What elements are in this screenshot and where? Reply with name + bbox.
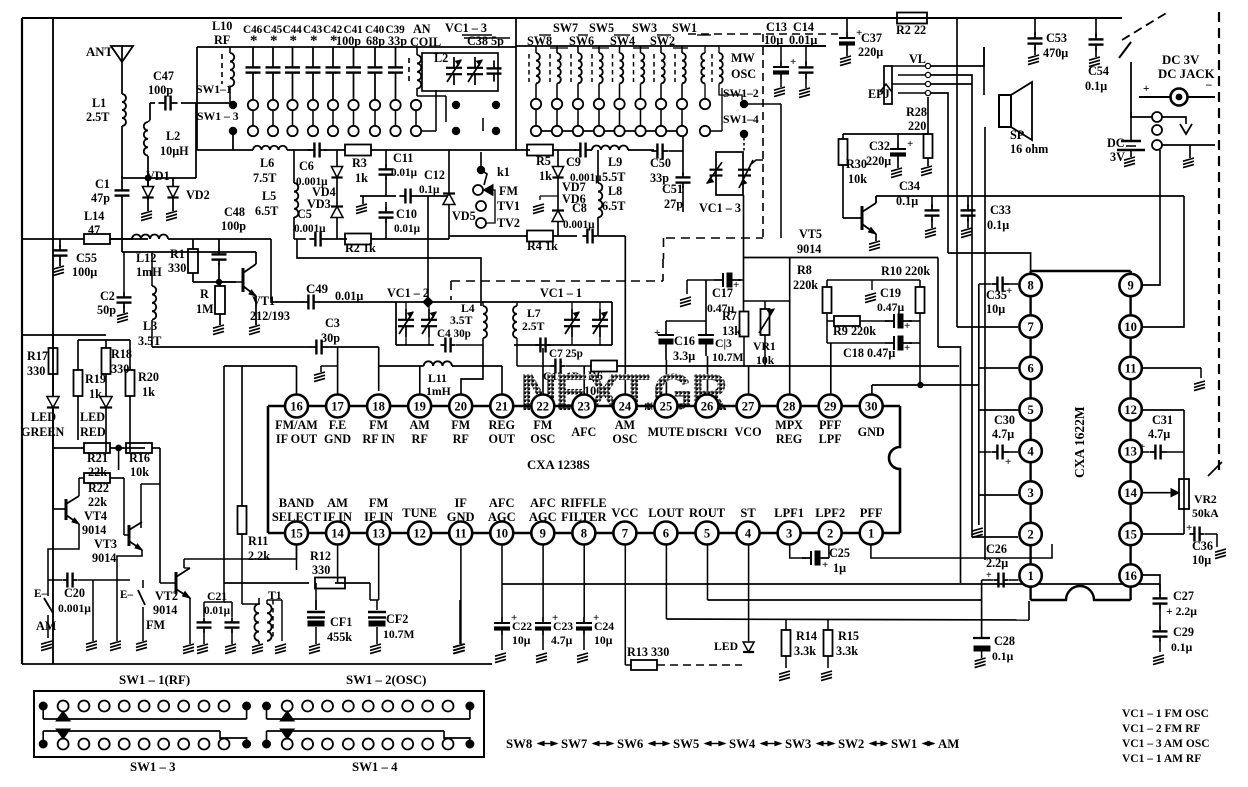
svg-text:VC1 – 2 FM RF: VC1 – 2 FM RF [1122,723,1201,735]
svg-text:DC 3V: DC 3V [1162,53,1200,67]
bus wire y150 segments [197,149,253,151]
capacitor C38 [493,60,495,68]
svg-text:C12: C12 [424,168,445,182]
svg-text:RF IN: RF IN [362,432,395,446]
svg-text:IF OUT: IF OUT [276,432,317,446]
svg-text:C48: C48 [224,205,245,219]
svg-text:10μ: 10μ [512,634,531,647]
svg-text:SW4: SW4 [729,737,756,751]
svg-text:C11: C11 [393,151,413,165]
tuning coil SW1 [674,54,676,82]
svg-text:FM: FM [451,418,470,432]
svg-text:1mH: 1mH [426,385,451,398]
wire pin30 up [871,385,873,394]
switch circles row2 OSC connected [536,130,683,132]
svg-text:CF1: CF1 [330,615,352,629]
trimmer VC1-3 left [710,169,723,171]
junction diamond VC1-2 [423,297,433,307]
svg-text:R8: R8 [797,263,812,277]
dashed vertical separator [762,34,764,237]
switch bank row contacts [39,702,48,711]
svg-text:C2: C2 [100,289,115,303]
pin 4 left U2 [1019,440,1041,462]
svg-text:2: 2 [827,527,833,541]
pin6 wire down [665,544,667,619]
svg-text:4.7μ: 4.7μ [1148,427,1170,441]
pin 11 right U2 [1119,357,1141,379]
svg-text:SW1 – 4: SW1 – 4 [352,760,398,774]
resistor R2 22 [897,13,927,24]
svg-text:12: 12 [413,527,426,541]
pin4 wire down [748,544,750,642]
bank top line right [826,45,920,47]
svg-text:R19: R19 [85,372,106,386]
svg-text:C26: C26 [986,542,1007,556]
svg-text:21: 21 [495,400,508,414]
pin 13 label [367,522,390,545]
tuning coil SW6 [570,54,572,82]
svg-text:330: 330 [111,362,129,376]
svg-text:FM: FM [533,418,552,432]
svg-text:L11: L11 [428,372,447,385]
pin10 wire down [501,544,503,617]
T1 right winding [266,600,268,604]
svg-text:4.7μ: 4.7μ [551,634,573,647]
trimmer VC1-1b [599,309,601,320]
dashed wire top [688,33,838,35]
svg-text:VD2: VD2 [186,188,210,202]
svg-text:C36: C36 [1192,539,1213,553]
wire pin15 to C36 [1142,533,1184,535]
wire k1 up [480,131,482,152]
svg-text:220: 220 [908,119,926,133]
svg-text:AM: AM [327,496,348,510]
svg-text:C20: C20 [64,586,85,600]
svg-text:L2: L2 [166,129,180,143]
svg-text:0.1μ: 0.1μ [1085,79,1107,93]
svg-text:R21: R21 [87,451,108,465]
svg-text:7: 7 [1027,320,1033,334]
wire VC1-3 down to R8 row [744,257,938,259]
svg-text:16: 16 [290,400,303,414]
IC U2 CXA1622M body [1029,271,1031,600]
svg-text:*: * [250,33,258,49]
svg-text:VT5: VT5 [799,227,822,241]
pin 17 label [326,395,349,418]
svg-text:C47: C47 [153,69,174,83]
svg-text:2.2k: 2.2k [248,549,270,563]
svg-text:23: 23 [578,400,591,414]
svg-text:R2 22: R2 22 [896,23,926,37]
pin 16 label [285,395,308,418]
svg-text:17: 17 [331,400,344,414]
svg-text:AFC: AFC [489,496,515,510]
capacitor C7 25p [535,344,540,346]
svg-text:C17: C17 [712,286,733,300]
capacitor C14 [805,61,807,67]
svg-text:22: 22 [537,400,550,414]
L4 bottom to pin20 [461,345,483,394]
svg-text:R13 330: R13 330 [627,645,669,659]
VT2 emitter ground [189,598,191,644]
svg-text:COIL: COIL [410,35,441,49]
pin7 wire down [624,544,626,665]
svg-text:11: 11 [455,527,467,541]
svg-text:OUT: OUT [489,432,515,446]
svg-text:L3: L3 [143,319,157,333]
svg-text:VL: VL [909,52,926,66]
ground left small [92,580,94,641]
switch bank row contacts [262,702,271,711]
svg-text:2.5T: 2.5T [86,110,109,124]
svg-text:8: 8 [1027,279,1033,293]
svg-text:1mH: 1mH [136,265,162,279]
svg-text:C25: C25 [829,546,850,560]
svg-text:FILTER: FILTER [561,510,607,524]
svg-text:k1: k1 [497,165,510,179]
wire pin16 up [296,366,298,394]
svg-text:2.5T: 2.5T [522,320,545,333]
svg-text:3.5T: 3.5T [138,334,161,348]
R16 right wire down [152,447,160,449]
svg-text:22k: 22k [88,465,107,479]
svg-text:TUNE: TUNE [402,506,437,520]
svg-text:ANT: ANT [86,45,113,59]
svg-text:LOUT: LOUT [648,506,684,520]
IC bottom edge [308,532,326,535]
wire SW1-3 down [232,135,234,150]
svg-text:SW7: SW7 [561,737,588,751]
box AN coil [422,53,498,91]
svg-text:SW1–2: SW1–2 [723,87,759,100]
wire C2 L3 VT1 row [122,251,256,253]
svg-text:LPF: LPF [819,432,842,446]
svg-text:SW6: SW6 [617,737,644,751]
ground VD7 [540,195,558,197]
VT2 collector wire to pin15 [183,559,185,568]
svg-text:R7: R7 [722,309,737,323]
svg-text:R17: R17 [27,349,48,363]
svg-text:R11: R11 [248,534,268,548]
svg-text:29: 29 [824,400,837,414]
svg-text:OSC: OSC [530,432,555,446]
svg-text:30p: 30p [321,331,340,345]
trimmer cap VC1-3a [453,57,455,68]
svg-text:0.001μ: 0.001μ [563,219,595,231]
svg-text:10μ: 10μ [594,634,613,647]
wire C16 top [666,320,706,322]
svg-text:AFC: AFC [530,496,556,510]
svg-text:GND: GND [447,510,475,524]
wire pin25 up [665,360,667,394]
EPJ wire 2 [931,84,972,99]
wire pin29 up [830,343,832,394]
tuning coil SW3 [633,54,635,82]
svg-text:C5: C5 [297,207,312,221]
bus y600 pin5 [708,599,982,601]
wire C12 down to VC1-2 [427,196,429,302]
svg-text:10μ: 10μ [986,302,1005,316]
svg-text:16 ohm: 16 ohm [1010,142,1048,156]
svg-text:SW1: SW1 [672,21,697,35]
SW1-4 dotted stub [743,138,745,152]
tuning coil SW4 [612,54,614,82]
svg-text:L9: L9 [608,155,622,169]
svg-text:10.7M: 10.7M [712,351,743,364]
switch circles row1 OSC [531,99,541,109]
svg-text:C23: C23 [553,620,573,633]
svg-text:FM: FM [369,418,388,432]
svg-text:VCC: VCC [611,506,638,520]
svg-text:8: 8 [581,527,587,541]
svg-text:C28: C28 [994,634,1015,648]
wires EPJ to SP [931,47,984,66]
pin 24 label [613,395,636,418]
svg-text:0.1μ: 0.1μ [987,218,1009,232]
svg-text:CXA 1622M: CXA 1622M [1072,406,1087,478]
svg-text:R9 220k: R9 220k [833,324,876,338]
svg-text:SW5: SW5 [589,21,614,35]
svg-text:R12: R12 [310,549,331,563]
svg-text:10μ: 10μ [764,33,783,47]
svg-text:F.E: F.E [329,418,347,432]
capacitor C37 220u [846,32,848,38]
switch circles row2 RF [248,126,258,136]
wire pin16 to C27 [1142,575,1160,592]
svg-text:+: + [1186,522,1192,534]
svg-text:100p: 100p [148,83,173,97]
trimmer VC1-2a [405,309,407,320]
tuning coil SW2 [653,54,655,82]
svg-text:10.7M: 10.7M [383,628,414,641]
switch bank rails [42,706,44,719]
svg-text:R28: R28 [906,105,927,119]
svg-text:+: + [907,138,913,150]
svg-text:5: 5 [1027,403,1033,417]
svg-text:330: 330 [312,563,330,577]
svg-text:C8: C8 [572,201,587,215]
switch bank box [34,691,484,757]
pin3 wire down [790,544,806,558]
speaker SP 16 ohm [999,95,1011,127]
svg-text:AGC: AGC [529,510,557,524]
svg-text:*: * [270,33,278,49]
svg-text:C19: C19 [880,286,901,300]
pin 8 label [572,522,595,545]
speaker terminal wires [983,47,985,95]
svg-text:1k: 1k [142,385,155,399]
LED red diode [100,397,112,408]
svg-text:11: 11 [1125,362,1137,376]
pin 25 label [654,395,677,418]
svg-text:SW1: SW1 [891,737,917,751]
svg-text:50kA: 50kA [1192,507,1219,520]
svg-text:VD5: VD5 [452,209,476,223]
svg-text:IF IN: IF IN [323,510,352,524]
svg-text:16: 16 [1124,569,1137,583]
svg-text:VC1 – 2: VC1 – 2 [387,286,429,300]
svg-text:C3: C3 [325,316,340,330]
pin 7 label [613,522,636,545]
svg-text:0.47μ: 0.47μ [877,301,904,314]
svg-text:DISCRI: DISCRI [686,425,728,439]
svg-text:E–: E– [120,589,133,601]
svg-text:AM: AM [36,619,57,633]
VCC rail to pin7 [956,18,958,327]
pin 10 right U2 [1119,315,1141,337]
svg-text:3.3k: 3.3k [836,644,858,658]
svg-text:220k: 220k [793,278,818,292]
svg-text:9014: 9014 [92,551,116,565]
svg-text:FM: FM [369,496,389,510]
svg-text:14: 14 [1124,486,1137,500]
pin 18 label [367,395,390,418]
volume line y196 [876,195,1184,197]
svg-text:C37: C37 [861,31,882,45]
svg-text:30: 30 [865,400,878,414]
svg-text:C32: C32 [869,139,890,153]
dashed boundary tuning [451,280,663,282]
svg-text:C22: C22 [512,620,532,633]
svg-text:C38 5p: C38 5p [467,34,504,48]
svg-text:C18 0.47μ: C18 0.47μ [843,346,895,360]
capacitor C4 30p [440,344,445,346]
svg-text:R14: R14 [796,629,817,643]
ground far right bottom left area [459,600,461,644]
pin 6 label [654,522,677,545]
svg-text:1μ: 1μ [833,561,846,575]
svg-text:VT4: VT4 [84,509,107,523]
svg-text:1: 1 [868,527,874,541]
svg-text:19: 19 [413,400,426,414]
wire pin5 [979,409,1018,411]
svg-text:C16: C16 [674,334,695,348]
bus y584 to C27 junction [1159,584,1161,596]
dashed right border [1122,12,1168,40]
capacitor C13 electrolytic [780,61,782,67]
switch circles row1 RF [248,100,258,110]
capacitor C23 4.7u [542,617,544,623]
svg-text:VCO: VCO [735,425,762,439]
svg-text:SW3: SW3 [785,737,811,751]
tuning coil SW7 [549,54,551,82]
pin11 wire down [460,544,462,644]
pin 9 label [531,522,554,545]
wire pin9 up to DC switch [1142,150,1160,285]
pin 15 right U2 [1119,523,1141,545]
svg-text:+: + [904,320,910,332]
svg-text:0.001μ: 0.001μ [58,602,91,615]
svg-text:1k: 1k [355,171,368,185]
ground C19 [871,280,873,290]
svg-text:SW1 – 3: SW1 – 3 [130,760,176,774]
svg-text:GND: GND [858,425,885,439]
pin 10 label [490,522,513,545]
svg-text:OSC: OSC [731,67,756,81]
svg-text:MPX: MPX [775,418,803,432]
pin5 wire down [707,544,709,600]
pin 15 label [285,522,308,545]
speaker wires down [947,180,949,253]
svg-text:ST: ST [740,506,756,520]
svg-text:L10: L10 [212,19,232,33]
pin15 wire down [296,544,298,570]
svg-text:AGC: AGC [488,510,516,524]
svg-text:6: 6 [1027,362,1033,376]
svg-text:AM: AM [938,737,959,751]
svg-text:4.7μ: 4.7μ [992,427,1014,441]
svg-text:SW7: SW7 [553,21,578,35]
svg-text:C31: C31 [1152,413,1173,427]
pin9 wire down [542,544,544,617]
svg-text:1k: 1k [539,169,552,183]
svg-text:L14: L14 [84,209,104,223]
wire y258 link [297,239,481,306]
svg-text:220μ: 220μ [858,45,883,59]
svg-text:FM: FM [146,618,165,632]
pin 16 right U2 [1119,564,1141,586]
svg-text:C7 25p: C7 25p [549,348,583,360]
svg-text:100p: 100p [221,219,246,233]
C19 ecap [885,320,894,322]
svg-text:SELECT: SELECT [272,510,322,524]
svg-text:C53: C53 [1046,31,1067,45]
svg-text:18: 18 [372,400,385,414]
IC top edge [308,405,326,408]
pin 23 label [572,395,595,418]
svg-text:R20: R20 [138,370,159,384]
C18 ecap [885,342,894,344]
svg-text:VC1 – 1 FM OSC: VC1 – 1 FM OSC [1122,708,1209,720]
svg-text:C34: C34 [899,179,920,193]
svg-text:0.1μ: 0.1μ [419,184,440,196]
VT3 collector arm join [141,522,142,528]
pin14 wire down [337,544,339,583]
R9 220k [834,316,860,326]
SW1-2 wire down [780,104,782,238]
svg-text:VC1 – 1 AM RF: VC1 – 1 AM RF [1122,753,1201,765]
svg-text:9: 9 [540,527,546,541]
svg-text:R15: R15 [838,629,859,643]
pin 3 left U2 [1019,481,1041,503]
svg-text:C29: C29 [1173,625,1194,639]
selector k1 FM TV1 TV2 [477,166,485,174]
svg-text:OSC: OSC [612,432,637,446]
svg-text:10μH: 10μH [160,144,189,158]
pin 4 label [737,522,760,545]
svg-text:1k: 1k [89,387,102,401]
svg-text:IF IN: IF IN [364,510,393,524]
svg-text:2: 2 [1027,528,1033,542]
svg-text:0.01μ: 0.01μ [204,605,231,617]
svg-text:RIFFLE: RIFFLE [561,496,607,510]
svg-text:C55: C55 [76,251,97,265]
svg-text:10: 10 [1124,320,1137,334]
svg-text:9014: 9014 [797,242,821,256]
bus y619 pin6 [666,619,1029,620]
svg-text:68p: 68p [366,34,385,48]
svg-text:SP: SP [1010,128,1025,142]
jack contacts [1152,112,1162,122]
svg-text:LPF2: LPF2 [815,506,845,520]
CF1 stub [315,583,317,610]
svg-text:3V: 3V [1110,150,1125,164]
svg-text:CF2: CF2 [386,612,408,626]
wire pin22 up [542,348,544,394]
svg-text:RF: RF [214,33,230,47]
svg-text:47p: 47p [91,191,110,205]
wire pin30 bus y385 [872,384,979,386]
